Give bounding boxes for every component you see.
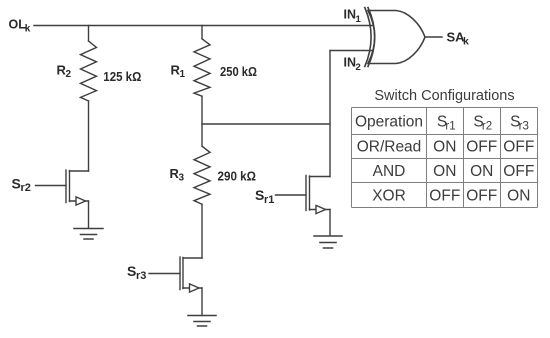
wire: R3 bottom to Sr3 drain (201, 204, 203, 258)
switch Sr2 label (12, 175, 31, 194)
svg-text:r3: r3 (136, 270, 146, 282)
transistor Sr3 source lead (183, 287, 202, 289)
svg-text:IN: IN (344, 55, 357, 69)
XOR gate U1 body (368, 11, 425, 64)
wire: R2 branch top (88, 26, 90, 42)
svg-text:r1: r1 (445, 121, 455, 133)
svg-text:290 kΩ: 290 kΩ (218, 169, 257, 184)
transistor Sr1 drain lead (310, 176, 331, 178)
wire: R2 bottom to Sr2 drain (88, 101, 90, 171)
ground (Sr3) (188, 316, 216, 327)
ground (Sr2) (74, 229, 103, 240)
wire: Sr1 gate lead (276, 194, 307, 196)
svg-text:125 kΩ: 125 kΩ (103, 69, 141, 84)
svg-text:ON: ON (470, 163, 493, 180)
svg-text:OFF: OFF (429, 188, 460, 205)
svg-text:S: S (127, 263, 136, 279)
node OLk label (9, 17, 31, 34)
svg-text:OFF: OFF (503, 163, 534, 180)
table row OR/Read (357, 139, 535, 156)
transistor Sr1 channel (309, 176, 311, 210)
svg-text:r3: r3 (519, 121, 529, 133)
transistor Sr2 source arrow (76, 197, 86, 205)
XOR gate U1 inner input arc overshoot (368, 8, 375, 67)
svg-text:OFF: OFF (503, 139, 534, 156)
resistor R1 label (171, 63, 186, 81)
wire: SAk output (425, 36, 442, 38)
svg-text:k: k (25, 23, 31, 34)
svg-text:Switch Configurations: Switch Configurations (374, 88, 514, 104)
wire: R1 bottom through node to R3 top (201, 96, 203, 146)
table header row (355, 114, 529, 133)
wire: Sr3 gate lead (149, 273, 180, 275)
svg-text:1: 1 (180, 69, 186, 80)
wire: OLk top rail to IN1 (34, 25, 373, 27)
node IN2 label (344, 55, 361, 73)
wire: IN2 riser (329, 51, 331, 177)
XOR gate U1 outer input arc (365, 8, 371, 67)
svg-text:IN: IN (344, 7, 357, 21)
transistor Sr3 gate bar (179, 257, 181, 290)
node SAk label (447, 30, 470, 48)
ground (Sr1) (314, 236, 342, 248)
svg-text:Operation: Operation (355, 114, 423, 131)
svg-text:OL: OL (9, 17, 27, 31)
table grid (352, 108, 538, 208)
wire: R1 branch top (201, 26, 203, 39)
transistor Sr1 source lead (310, 209, 331, 211)
svg-text:2: 2 (66, 69, 72, 80)
switch Sr3 label (127, 263, 146, 282)
resistor R3 (194, 146, 210, 204)
transistor Sr3 drain lead (183, 257, 202, 259)
resistor R3 label (170, 166, 185, 184)
svg-text:XOR: XOR (372, 188, 406, 205)
svg-text:r2: r2 (21, 182, 31, 194)
svg-text:k: k (463, 36, 469, 48)
wire: node to IN2 riser (202, 123, 330, 125)
svg-text:ON: ON (433, 163, 456, 180)
svg-text:S: S (12, 175, 21, 191)
node IN1 label (344, 7, 362, 25)
svg-text:2: 2 (356, 62, 361, 73)
wire: Sr2 source to ground (88, 201, 90, 228)
svg-text:OFF: OFF (466, 188, 497, 205)
transistor Sr2 drain lead (70, 170, 89, 172)
transistor Sr2 gate bar (65, 170, 67, 203)
svg-text:OFF: OFF (466, 139, 497, 156)
svg-text:r1: r1 (264, 194, 274, 206)
svg-text:3: 3 (179, 173, 185, 184)
transistor Sr1 source arrow (316, 205, 326, 213)
svg-text:r2: r2 (482, 121, 492, 133)
svg-text:250 kΩ: 250 kΩ (220, 64, 257, 79)
svg-text:S: S (255, 187, 264, 203)
wire: IN2 horizontal into gate (330, 50, 374, 52)
resistor R2 label (57, 62, 72, 80)
resistor R1 (194, 39, 210, 96)
transistor Sr1 gate bar (305, 176, 307, 211)
wire: Sr1 source to ground (329, 210, 331, 236)
table row XOR (372, 188, 530, 205)
svg-text:1: 1 (356, 14, 362, 25)
wire: Sr2 gate lead (36, 185, 67, 187)
svg-text:ON: ON (507, 188, 530, 205)
svg-text:OR/Read: OR/Read (357, 139, 422, 156)
transistor Sr3 channel (182, 258, 184, 289)
svg-text:AND: AND (373, 163, 406, 180)
resistor R2 (81, 41, 97, 101)
switch Sr1 label (255, 187, 274, 206)
transistor Sr2 channel (69, 171, 71, 202)
transistor Sr3 source arrow (190, 284, 200, 292)
wire: Sr3 source to ground (201, 288, 203, 316)
transistor Sr2 source lead (70, 200, 89, 202)
svg-text:ON: ON (433, 139, 456, 156)
table row AND (373, 163, 535, 180)
